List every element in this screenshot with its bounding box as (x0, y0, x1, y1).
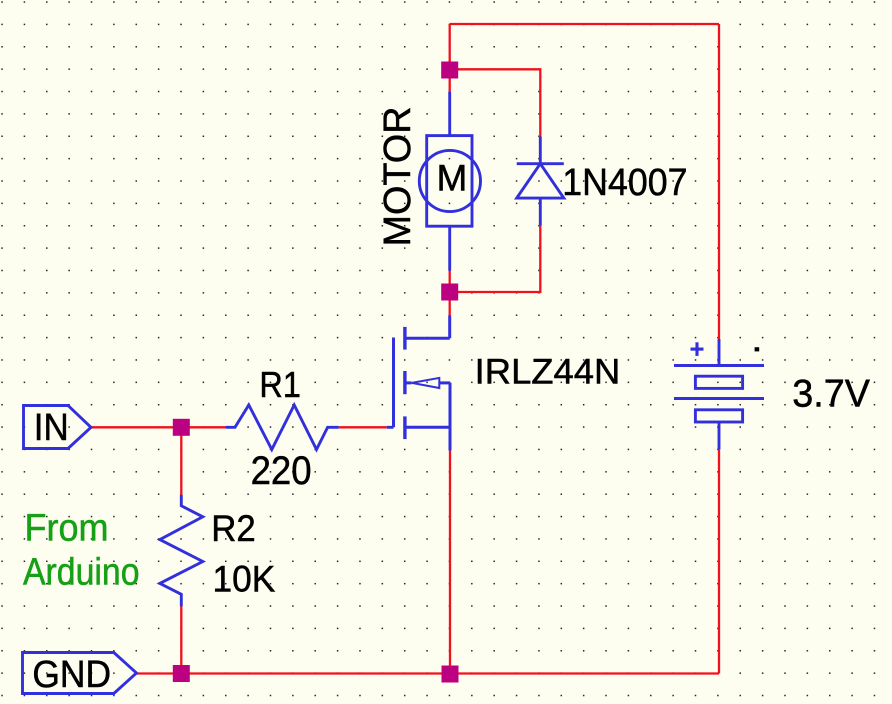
wire battery - to bottom rail (718, 449, 720, 673)
svg-text:IN: IN (34, 407, 69, 449)
svg-text:GND: GND (32, 654, 111, 696)
motor M1 (419, 92, 480, 271)
port GND (23, 653, 137, 694)
resistor R2 (160, 495, 203, 606)
junction GND rail at R2 (173, 665, 190, 682)
wire node A to R2 top (180, 427, 182, 495)
wire node C to drain (449, 292, 451, 316)
svg-text:IRLZ44N: IRLZ44N (475, 353, 621, 392)
wire R2 bottom to ground rail (180, 606, 182, 673)
svg-text:Arduino: Arduino (23, 551, 140, 593)
port IN (24, 406, 92, 449)
wire motor top column (449, 24, 451, 92)
wire IN to node A (91, 426, 226, 428)
svg-text:From: From (25, 508, 109, 550)
svg-text:M: M (437, 158, 468, 199)
svg-text:10K: 10K (213, 558, 276, 599)
wire node C to motor bottom pin (449, 271, 451, 292)
junction node C (motor bottom / drain) (441, 284, 458, 301)
wire node C to diode bottom (450, 226, 541, 292)
wire top (battery+ to motor top) (450, 23, 719, 25)
junction GND rail at source (442, 666, 459, 683)
battery minus dot (755, 347, 760, 351)
svg-text:R2: R2 (211, 507, 256, 549)
resistor R1 (226, 405, 339, 450)
svg-text:1N4007: 1N4007 (562, 162, 687, 204)
wire source to ground rail (449, 451, 451, 674)
svg-text:3.7V: 3.7V (792, 373, 870, 416)
wire node B to diode top (450, 69, 541, 136)
wire right vertical to battery + (718, 24, 720, 339)
transistor Q1 IRLZ44N (387, 316, 450, 451)
svg-text:220: 220 (251, 449, 312, 493)
wire bottom rail (137, 672, 720, 674)
junction node A (IN / R1 / R2) (173, 419, 190, 436)
diode D1 (517, 137, 564, 226)
battery plus sign (691, 342, 704, 356)
svg-text:R1: R1 (259, 364, 301, 405)
battery BT1 (674, 339, 764, 449)
junction node B (motor top) (441, 62, 458, 79)
svg-text:MOTOR: MOTOR (377, 107, 419, 247)
wire R1 to gate (339, 426, 387, 428)
